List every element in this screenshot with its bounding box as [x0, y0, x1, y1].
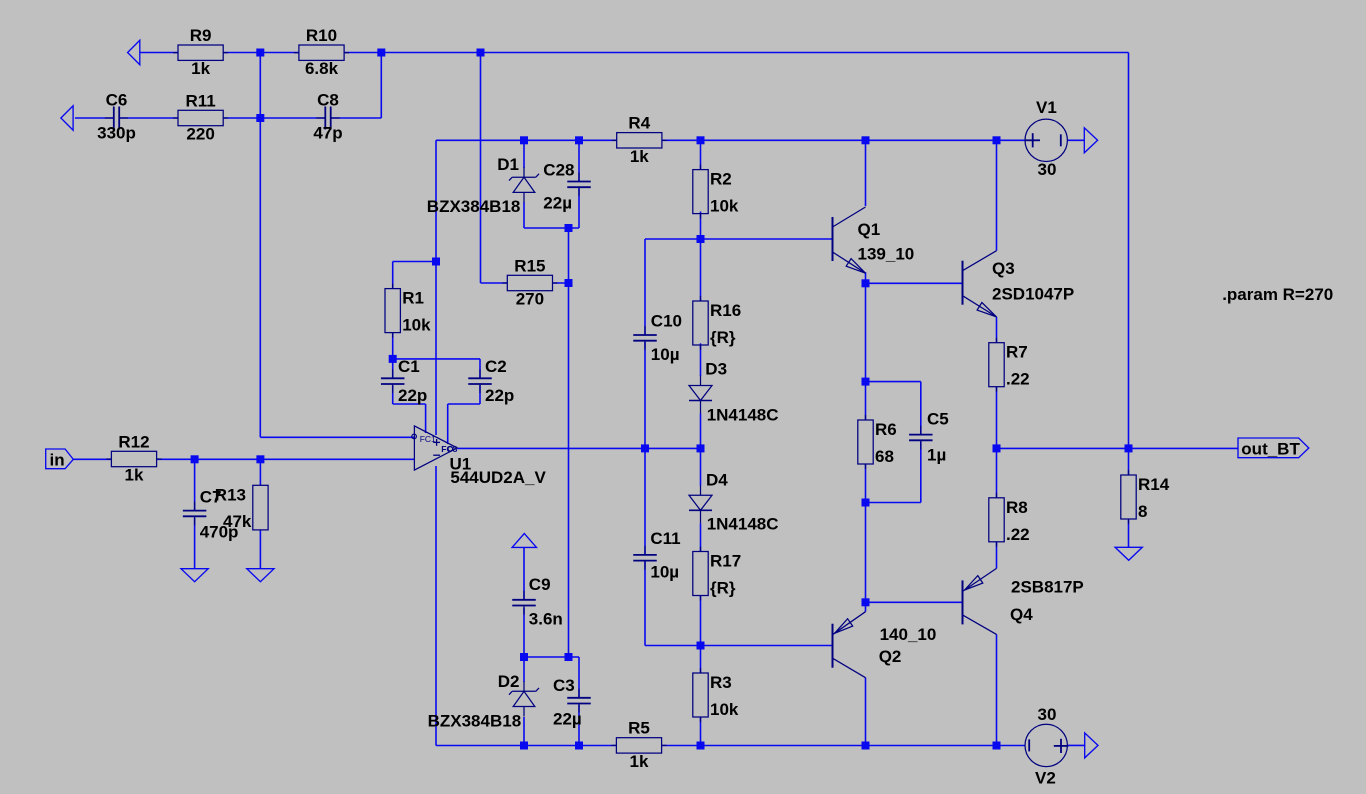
wire D1 top [523, 140, 525, 168]
svg-text:330p: 330p [97, 124, 136, 143]
wire R1/C2 row [393, 358, 480, 360]
node C9/D2 [520, 653, 528, 661]
wire C2 bottom [479, 385, 481, 404]
wire V+ rail left [436, 139, 617, 141]
wire V- rail right [662, 745, 1026, 747]
wire V2 to arrow [1067, 744, 1084, 746]
svg-text:C3: C3 [553, 676, 575, 695]
voltage source V1 [1025, 119, 1067, 161]
capacitor C3 [567, 697, 591, 699]
svg-text:10k: 10k [402, 316, 431, 335]
svg-text:22µ: 22µ [543, 194, 572, 213]
node marker arrow (V2) [1085, 733, 1098, 758]
diode D3 [700, 376, 702, 386]
diode D4 [700, 485, 702, 495]
svg-text:C7: C7 [200, 487, 222, 506]
wire riser C8 to top rail [380, 53, 382, 119]
node Q1 collector [862, 136, 870, 144]
wire top rail seg1 [140, 52, 178, 54]
node mid vertical bottom [565, 653, 573, 661]
node V1/Q3 collector [993, 136, 1001, 144]
wire R1 top row [393, 261, 436, 263]
wire left vertical lower (opamp to V- rail) [435, 466, 437, 746]
wire C5 top row [866, 381, 921, 383]
wire Q1 collector [865, 140, 867, 206]
svg-text:Q1: Q1 [858, 220, 881, 239]
ground GND (C7) [181, 569, 208, 582]
resistor R13 [253, 485, 268, 530]
wire R2 top [700, 140, 702, 169]
wire D2 top [523, 657, 525, 682]
svg-text:470p: 470p [200, 522, 239, 541]
svg-text:D2: D2 [498, 672, 520, 691]
wire C5 bottom row [866, 502, 921, 504]
wire Q2 base row [645, 645, 833, 647]
svg-text:.param R=270: .param R=270 [1222, 285, 1333, 304]
wire R17 to Q2 base node [700, 595, 702, 646]
wire R14 top [1128, 448, 1130, 475]
svg-text:R10: R10 [306, 26, 337, 45]
wire D3 to out node [700, 414, 702, 449]
transistor Q4 (PNP) [962, 580, 964, 624]
capacitor C11 [633, 554, 657, 556]
node D3/D4 [697, 444, 705, 452]
svg-text:30: 30 [1038, 705, 1057, 724]
node Q2 collector [862, 742, 870, 750]
wire out node to D4 [700, 448, 702, 485]
svg-text:3.6n: 3.6n [529, 610, 563, 629]
resistor R16 [693, 301, 708, 345]
capacitor C5 [909, 434, 933, 436]
wire C11 bottom [644, 562, 646, 646]
wire R13 top [259, 459, 261, 485]
capacitor C8 [324, 107, 326, 130]
capacitor C10 [633, 334, 657, 336]
ground GND (R13) [247, 569, 274, 582]
node R15 right [565, 279, 573, 287]
svg-text:Q4: Q4 [1010, 605, 1033, 624]
node D1 top [520, 136, 528, 144]
svg-text:2SD1047P: 2SD1047P [992, 285, 1074, 304]
svg-text:2SB817P: 2SB817P [1011, 578, 1084, 597]
resistor R10 [299, 45, 344, 60]
svg-text:R17: R17 [710, 552, 741, 571]
wire Q3 collector [996, 140, 998, 250]
wire Q1 emitter to R6 [865, 283, 867, 420]
wire C3 top [578, 657, 580, 698]
node R10 right [377, 49, 385, 57]
resistor R7 [989, 343, 1004, 387]
svg-text:22p: 22p [485, 386, 514, 405]
wire in flag to R12 [73, 458, 112, 460]
svg-text:30: 30 [1038, 160, 1057, 179]
wire base row (R2/R16 node to Q1) [645, 238, 833, 240]
resistor R12 [111, 451, 156, 466]
node Q1 emitter [862, 279, 870, 287]
svg-text:R12: R12 [118, 432, 149, 451]
svg-text:C6: C6 [106, 91, 128, 110]
node C7 [191, 455, 199, 463]
wire out node to R8 [996, 448, 998, 497]
svg-text:.22: .22 [1006, 525, 1030, 544]
svg-text:D3: D3 [705, 360, 727, 379]
wire opamp noninv input row [260, 436, 414, 438]
resistor R3 [693, 673, 708, 717]
resistor R8 [989, 498, 1004, 542]
wire R2 bottom [700, 212, 702, 240]
svg-text:10µ: 10µ [651, 345, 680, 364]
node R1/C1/C2 [389, 355, 397, 363]
capacitor C9 [512, 599, 536, 601]
svg-text:R11: R11 [185, 91, 215, 110]
wire mid vertical (C28 node down to C3 node) [568, 228, 570, 657]
node C10/C11 [641, 444, 649, 452]
wire Q4 collector to V- rail [996, 634, 998, 745]
svg-text:R2: R2 [710, 170, 732, 189]
port out_BT [1238, 438, 1309, 458]
svg-text:R7: R7 [1006, 343, 1028, 362]
node R6/C5 bottom [862, 499, 870, 507]
wire C9/D2 row [524, 656, 579, 658]
resistor R6 [858, 420, 873, 464]
ground GND (R14) [1115, 547, 1142, 560]
wire Q4 base row [866, 601, 963, 603]
svg-text:1N4148C: 1N4148C [707, 515, 779, 534]
svg-text:D1: D1 [497, 155, 519, 174]
transistor Q2 (PNP) [832, 624, 834, 668]
svg-text:out_BT: out_BT [1241, 439, 1300, 458]
svg-text:270: 270 [516, 290, 544, 309]
svg-text:Q2: Q2 [879, 647, 902, 666]
svg-text:R16: R16 [710, 301, 741, 320]
svg-text:C2: C2 [485, 357, 507, 376]
svg-text:in: in [50, 450, 65, 469]
capacitor C6 [113, 107, 115, 130]
svg-text:10k: 10k [710, 197, 739, 216]
resistor R11 [178, 110, 223, 125]
node R2/R16/base [697, 235, 705, 243]
svg-text:V2: V2 [1035, 769, 1056, 788]
node marker arrow (top rail) [128, 40, 140, 64]
node R15 riser [477, 49, 485, 57]
svg-text:47p: 47p [313, 124, 342, 143]
wire top rail seg3 [344, 52, 1129, 54]
svg-text:C11: C11 [650, 529, 680, 548]
node top/feedback [256, 49, 264, 57]
wire C9 bottom [523, 608, 525, 657]
svg-text:C28: C28 [543, 161, 574, 180]
wire C1 drop to opamp [425, 404, 427, 433]
transistor Q3 (NPN) [962, 261, 964, 305]
wire C7 bottom [194, 518, 196, 569]
wire R3 to V- rail [700, 717, 702, 746]
wire R16 top [700, 239, 702, 301]
svg-text:{R}: {R} [710, 579, 736, 598]
wire C10 bottom [644, 342, 646, 448]
wire C1 bottom [392, 385, 394, 404]
wire R14 bottom [1128, 520, 1130, 547]
svg-text:1µ: 1µ [927, 445, 946, 464]
op-amp U1 [414, 426, 457, 470]
svg-text:BZX384B18: BZX384B18 [427, 197, 521, 216]
wire top rail seg2 [223, 52, 299, 54]
resistor R5 [616, 738, 661, 753]
svg-text:220: 220 [186, 125, 214, 144]
svg-text:C5: C5 [927, 410, 949, 429]
wire Q2 base node to R3 [700, 646, 702, 674]
power arrow above C9 [512, 534, 536, 548]
wire C10 top [644, 239, 646, 335]
svg-text:22p: 22p [398, 386, 427, 405]
wire R13 bottom [259, 530, 261, 569]
svg-text:C8: C8 [317, 91, 339, 110]
svg-text:C1: C1 [398, 357, 420, 376]
svg-text:R8: R8 [1006, 498, 1028, 517]
wire C2 elbow [448, 403, 480, 405]
svg-text:1N4148C: 1N4148C [707, 406, 779, 425]
svg-text:R6: R6 [875, 420, 897, 439]
node R7/R8 out [993, 444, 1001, 452]
svg-text:R14: R14 [1138, 475, 1170, 494]
wire C7 top [194, 459, 196, 510]
svg-text:BZX384B18: BZX384B18 [428, 712, 522, 731]
wire R12 to opamp inv input [156, 458, 414, 460]
resistor R17 [693, 552, 708, 596]
wire Q2 collector to V- rail [865, 678, 867, 746]
svg-text:1k: 1k [125, 466, 144, 485]
wire C1 elbow [393, 403, 426, 405]
svg-text:140_10: 140_10 [880, 625, 937, 644]
svg-text:.22: .22 [1006, 370, 1030, 389]
svg-text:8: 8 [1138, 502, 1147, 521]
svg-text:C10: C10 [651, 312, 682, 331]
svg-text:139_10: 139_10 [858, 245, 915, 264]
wire R15 left riser [480, 53, 482, 284]
wire D4 to R17 [700, 523, 702, 551]
svg-text:FC8: FC8 [441, 444, 457, 454]
node C28 top [575, 136, 583, 144]
capacitor C7 [183, 510, 207, 512]
resistor R15 [507, 275, 552, 290]
wire R6 bottom to Q2 emitter [865, 464, 867, 611]
node marker arrow (C6 row) [61, 106, 73, 130]
svg-text:R15: R15 [514, 256, 545, 275]
transistor Q1 (NPN) [832, 217, 834, 261]
svg-text:6.8k: 6.8k [305, 59, 339, 78]
wire power arrow to C9 [523, 547, 525, 599]
wire opamp output row [457, 447, 700, 449]
wire C28 bottom [578, 189, 580, 229]
svg-text:1k: 1k [630, 752, 649, 771]
wire R15 right [552, 282, 568, 284]
svg-text:R5: R5 [628, 719, 650, 738]
wire C28 top [578, 140, 580, 181]
resistor R14 [1121, 475, 1136, 519]
wire C8 to riser [330, 117, 381, 119]
port in [46, 449, 74, 469]
capacitor C28 [567, 181, 591, 183]
svg-text:{R}: {R} [710, 328, 736, 347]
wire D1/C28 bottom row [524, 227, 579, 229]
voltage source V2 [1025, 724, 1067, 766]
wire C2 drop to opamp [447, 404, 449, 444]
wire output rail [997, 447, 1239, 449]
svg-text:D4: D4 [706, 470, 728, 489]
wire C5 bottom [920, 442, 922, 503]
node R3 bottom [697, 742, 705, 750]
wire D1 bottom [523, 202, 525, 228]
node R13 [256, 455, 264, 463]
wire R7 to out node [996, 387, 998, 448]
capacitor C1 [381, 377, 405, 379]
svg-text:R4: R4 [628, 114, 650, 133]
wire C3 bottom [578, 705, 580, 746]
svg-text:1k: 1k [191, 59, 210, 78]
node R6/C5 top [862, 378, 870, 386]
node C3 bottom [575, 742, 583, 750]
svg-text:R3: R3 [710, 673, 732, 692]
wire left vertical upper (V+ to opamp) [435, 140, 437, 435]
wire Q3 emitter to R7 [996, 317, 998, 343]
resistor R2 [693, 170, 708, 214]
wire C6 to R11 [119, 117, 178, 119]
zener diode D1 [523, 167, 525, 177]
zener diode D2 [523, 681, 525, 691]
wire C11 top [644, 448, 646, 555]
resistor R4 [617, 133, 662, 148]
wire R11 to C8 [223, 117, 325, 119]
capacitor C2 [468, 377, 492, 379]
wire R15 left [481, 282, 508, 284]
svg-text:R9: R9 [190, 26, 212, 45]
node R11/C8 [256, 114, 264, 122]
wire R8 to Q4 emitter [996, 541, 998, 568]
node R1 top [432, 258, 440, 266]
resistor R9 [178, 45, 223, 60]
svg-text:V1: V1 [1036, 98, 1057, 117]
node out/R14 [1125, 444, 1133, 452]
wire Q3 base row [866, 282, 963, 284]
node R17/R3/Q2 base [697, 642, 705, 650]
node R4/R2 [697, 136, 705, 144]
wire R16 to D3 [700, 343, 702, 376]
svg-text:C9: C9 [529, 575, 551, 594]
svg-text:1k: 1k [630, 147, 649, 166]
svg-text:10µ: 10µ [650, 563, 679, 582]
wire V1 to arrow [1067, 139, 1084, 141]
wire Q1 emitter stub [865, 272, 867, 283]
wire C6 row seg1 [75, 117, 114, 119]
svg-text:22µ: 22µ [553, 710, 582, 729]
svg-text:544UD2A_V: 544UD2A_V [450, 468, 546, 487]
svg-text:R1: R1 [402, 289, 424, 308]
wire V+ rail right [662, 139, 1026, 141]
wire R1 bottom to C1 [392, 332, 394, 378]
node Q2 emitter [862, 598, 870, 606]
svg-text:Q3: Q3 [992, 259, 1015, 278]
resistor R1 [385, 289, 400, 333]
wire feedback vertical [259, 53, 261, 438]
wire R1 top [392, 262, 394, 289]
wire D2 bottom [523, 717, 525, 746]
wire C5 top [920, 382, 922, 435]
svg-text:68: 68 [875, 447, 894, 466]
node D2 bottom [520, 742, 528, 750]
node Q4 collector/V2 [993, 742, 1001, 750]
node marker arrow (V1) [1084, 128, 1097, 153]
wire C2 top [479, 359, 481, 378]
wire right column down to out node [1128, 53, 1130, 449]
wire V- rail left [436, 745, 617, 747]
node D1/C28 bottom [565, 224, 573, 232]
svg-text:10k: 10k [710, 700, 739, 719]
